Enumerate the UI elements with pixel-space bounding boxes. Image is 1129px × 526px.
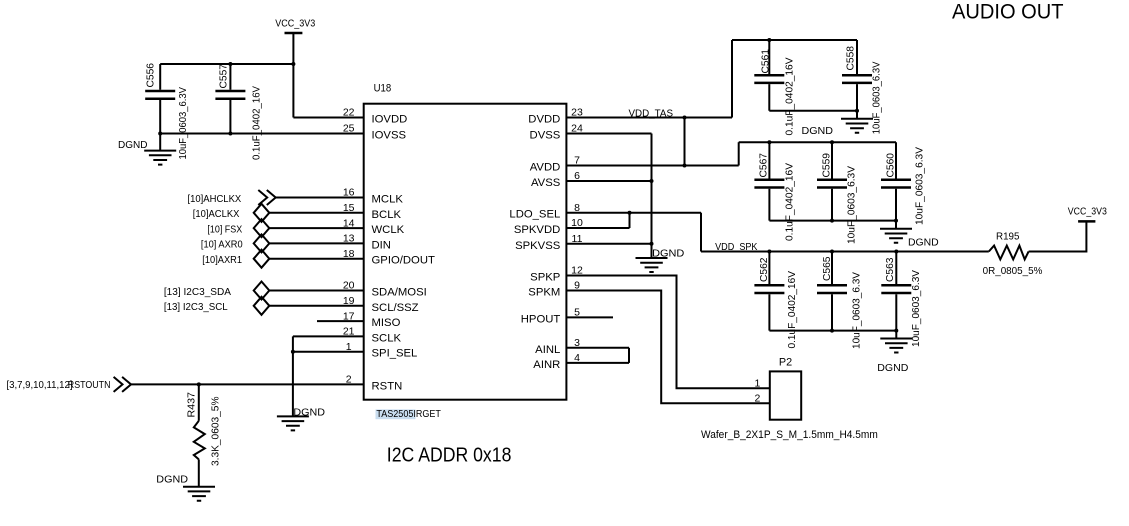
- svg-text:[10] AXR0: [10] AXR0: [201, 239, 243, 251]
- svg-text:C557: C557: [218, 64, 230, 89]
- svg-text:10uF_0603_6.3V: 10uF_0603_6.3V: [910, 270, 922, 347]
- pin 18 GPIO/DOUT: [343, 248, 435, 267]
- capacitor C556: [145, 64, 175, 134]
- port [13] I2C3_SCL: [164, 297, 269, 315]
- wire [13]I2C3_SDA to pin: [269, 290, 363, 292]
- svg-text:AINL: AINL: [535, 344, 560, 356]
- capacitor C561: [754, 40, 784, 111]
- wire VDD_TAS to AVDD: [684, 118, 686, 166]
- pin 20 SDA/MOSI: [343, 280, 427, 299]
- svg-text:R195: R195: [996, 231, 1020, 243]
- junction VDD_TAS / AVDD drop: [683, 116, 687, 120]
- wire AINL to AINR tie: [628, 348, 630, 363]
- wire MISO stub: [317, 320, 364, 322]
- wire LDO_SEL down to VDD_SPK: [700, 213, 702, 252]
- pin 1 SPI_SEL: [346, 341, 418, 360]
- op-amp / IC U18 TAS2505 body: [364, 104, 567, 400]
- svg-text:VDD_TAS: VDD_TAS: [629, 107, 674, 119]
- svg-text:AUDIO OUT: AUDIO OUT: [952, 1, 1064, 24]
- ground DGND (below C556): [144, 151, 176, 165]
- svg-text:[13] I2C3_SDA: [13] I2C3_SDA: [164, 286, 231, 298]
- ground DGND (below SPKVSS): [636, 258, 668, 272]
- junction LDO_SEL: [628, 211, 632, 215]
- pin 6 AVSS: [531, 170, 580, 189]
- wire RSTOUTN to pin 2 RSTN: [131, 383, 364, 385]
- svg-text:C556: C556: [145, 63, 157, 88]
- svg-text:DGND: DGND: [293, 406, 325, 418]
- junction C556 bottom rail: [158, 132, 162, 136]
- wire VDD_TAS up to cap rail: [731, 40, 733, 118]
- capacitor C558: [842, 40, 872, 111]
- wire bottom rail C556/C557 to pin 25 IOVSS: [160, 133, 364, 135]
- svg-text:[10]AHCLKX: [10]AHCLKX: [188, 193, 242, 205]
- svg-text:0.1uF_0402_16V: 0.1uF_0402_16V: [250, 86, 262, 160]
- svg-text:BCLK: BCLK: [372, 209, 402, 221]
- svg-text:DGND: DGND: [118, 139, 148, 151]
- pin 19 SCL/SSZ: [343, 295, 419, 314]
- svg-text:2: 2: [754, 393, 760, 405]
- pin 3 AINL: [535, 337, 580, 356]
- pin 11 SPKVSS: [515, 233, 583, 252]
- svg-text:C560: C560: [885, 153, 897, 178]
- U18 part number TAS2505IRGET (highlighted): [376, 408, 442, 420]
- junction C563 bottom: [894, 329, 898, 333]
- svg-text:3.3K_0603_5%: 3.3K_0603_5%: [210, 397, 222, 467]
- svg-text:[10] FSX: [10] FSX: [207, 223, 242, 235]
- pin 15 BCLK: [343, 202, 402, 221]
- svg-text:MCLK: MCLK: [372, 194, 404, 206]
- svg-text:20: 20: [343, 280, 355, 292]
- capacitor C563: [881, 252, 911, 331]
- junction R437 tap: [197, 382, 201, 386]
- svg-text:SDA/MOSI: SDA/MOSI: [372, 287, 427, 299]
- pin 22 IOVDD: [343, 107, 407, 126]
- svg-text:0.1uF_0402_16V: 0.1uF_0402_16V: [783, 58, 795, 136]
- svg-text:R437: R437: [186, 392, 198, 418]
- svg-text:17: 17: [343, 310, 355, 322]
- pin 4 AINR: [533, 352, 580, 371]
- svg-text:15: 15: [343, 202, 355, 214]
- junction C565 bottom: [830, 329, 834, 333]
- wire C556 to ground: [159, 134, 161, 151]
- junction C563 top: [894, 250, 898, 254]
- svg-text:16: 16: [343, 187, 355, 199]
- junction AVSS: [650, 179, 654, 183]
- pin 5 HPOUT: [521, 307, 580, 326]
- svg-text:IOVDD: IOVDD: [372, 114, 408, 126]
- wire pin 10 SPKVDD: [566, 227, 629, 229]
- wire DVSS down to ground: [651, 134, 653, 259]
- wire C558 to ground: [856, 111, 858, 119]
- svg-text:2: 2: [346, 374, 352, 386]
- svg-text:0.1uF_0402_16V: 0.1uF_0402_16V: [784, 163, 796, 241]
- wire [13]I2C3_SCL to pin: [269, 305, 363, 307]
- ground DGND (below C563): [880, 339, 912, 353]
- svg-text:1: 1: [346, 341, 352, 353]
- junction C557 bottom rail: [228, 132, 232, 136]
- svg-text:P2: P2: [779, 357, 792, 369]
- svg-text:LDO_SEL: LDO_SEL: [509, 209, 560, 221]
- svg-text:C558: C558: [844, 46, 856, 71]
- capacitor C565: [817, 252, 847, 331]
- power flag VCC_3V3 (right): [1068, 205, 1107, 221]
- svg-text:1: 1: [754, 378, 760, 390]
- svg-text:C562: C562: [758, 257, 770, 282]
- svg-text:Wafer_B_2X1P_S_M_1.5mm_H4.5mm: Wafer_B_2X1P_S_M_1.5mm_H4.5mm: [701, 429, 878, 441]
- resistor R437: [194, 384, 205, 486]
- junction C567 top: [767, 140, 771, 144]
- pin 23 DVDD: [528, 107, 583, 126]
- svg-text:IOVSS: IOVSS: [372, 130, 407, 142]
- svg-text:SCL/SSZ: SCL/SSZ: [372, 302, 419, 314]
- svg-text:DGND: DGND: [156, 474, 188, 486]
- junction C560 bottom: [894, 219, 898, 223]
- wire pin 9 SPKM to P2 pin 2: [566, 291, 769, 404]
- pin 16 MCLK: [343, 187, 403, 206]
- svg-text:C563: C563: [884, 257, 896, 282]
- wire bottom rail C561/C558: [769, 110, 857, 112]
- wire [10]FSX to pin: [269, 227, 363, 229]
- svg-text:SPI_SEL: SPI_SEL: [372, 348, 418, 360]
- wire pin 6 AVSS: [566, 180, 651, 182]
- svg-text:22: 22: [343, 107, 355, 119]
- svg-text:[13] I2C3_SCL: [13] I2C3_SCL: [164, 301, 228, 313]
- junction SPKVSS: [650, 242, 654, 246]
- svg-text:AINR: AINR: [533, 359, 560, 371]
- svg-text:C567: C567: [758, 153, 770, 178]
- svg-text:0R_0805_5%: 0R_0805_5%: [983, 265, 1043, 277]
- capacitor C560: [881, 142, 911, 220]
- resistor R195: [989, 246, 1029, 260]
- svg-text:I2C ADDR 0x18: I2C ADDR 0x18: [387, 445, 512, 467]
- ground DGND (below R437): [183, 487, 215, 501]
- ground DGND (below C560): [880, 229, 912, 243]
- wire pin 3 AINL: [566, 347, 629, 349]
- port [10]AHCLKX: [188, 190, 276, 205]
- wire R195 to VCC_3V3: [1029, 221, 1087, 251]
- svg-text:VDD_SPK: VDD_SPK: [715, 241, 757, 253]
- svg-text:SPKP: SPKP: [530, 272, 560, 284]
- svg-text:DVDD: DVDD: [528, 114, 560, 126]
- svg-text:25: 25: [343, 123, 355, 135]
- svg-text:[3,7,9,10,11,12]: [3,7,9,10,11,12]: [7, 379, 73, 391]
- svg-text:RSTOUTN: RSTOUTN: [68, 379, 111, 391]
- wire pin 7 AVDD: [566, 165, 738, 167]
- svg-text:VCC_3V3: VCC_3V3: [275, 18, 315, 30]
- pin 12 SPKP: [530, 265, 583, 284]
- svg-text:10uF_0603_6.3V: 10uF_0603_6.3V: [913, 147, 925, 225]
- svg-text:C561: C561: [760, 49, 772, 74]
- wire pin 4 AINR: [566, 362, 629, 364]
- wire [10]AHCLKX to pin: [276, 197, 364, 199]
- junction C561 top: [767, 38, 771, 42]
- port [10] AXR0: [201, 234, 269, 252]
- junction C565 top: [830, 250, 834, 254]
- pin 2 RSTN: [346, 374, 402, 393]
- pin 7 AVDD: [530, 155, 580, 174]
- svg-text:14: 14: [343, 217, 355, 229]
- wire [10]AXR0 to pin: [269, 242, 363, 244]
- pin 10 SPKVDD: [514, 217, 583, 236]
- svg-text:10uF_0603_6.3V: 10uF_0603_6.3V: [846, 166, 858, 244]
- wire SCLK/SPI_SEL down to ground: [292, 336, 294, 416]
- wire top rail C567/C559/C560: [739, 141, 896, 143]
- svg-text:C559: C559: [821, 153, 833, 178]
- svg-text:U18: U18: [374, 83, 392, 95]
- wire HPOUT stub: [566, 316, 613, 318]
- svg-text:DVSS: DVSS: [530, 130, 561, 142]
- wire C560 to ground: [895, 221, 897, 229]
- svg-text:RSTN: RSTN: [372, 380, 403, 392]
- pin 17 MISO: [343, 310, 401, 329]
- svg-text:19: 19: [343, 295, 355, 307]
- svg-text:SPKVSS: SPKVSS: [515, 240, 561, 252]
- junction C559 bottom: [830, 219, 834, 223]
- pin 8 LDO_SEL: [509, 202, 580, 221]
- junction C559 top: [830, 140, 834, 144]
- wire C563 to ground: [895, 331, 897, 339]
- svg-text:DGND: DGND: [908, 237, 939, 249]
- svg-text:GPIO/DOUT: GPIO/DOUT: [372, 255, 435, 267]
- power flag VCC_3V3 (top left): [275, 18, 315, 33]
- port [3,7,9,10,11,12]RSTOUTN: [7, 377, 132, 392]
- pin 24 DVSS: [530, 123, 583, 142]
- svg-text:SCLK: SCLK: [372, 332, 402, 344]
- svg-text:10uF_0603_6.3V: 10uF_0603_6.3V: [871, 62, 883, 135]
- wire bottom rail C567/C559/C560: [769, 220, 896, 222]
- wire top rail C556/C557 to VCC_3V3: [160, 63, 293, 65]
- wire pin 21 SCLK: [293, 335, 364, 337]
- pin 13 DIN: [343, 233, 391, 252]
- wire pin 22 IOVDD: [293, 117, 363, 119]
- svg-text:SPKVDD: SPKVDD: [514, 224, 560, 236]
- svg-text:HPOUT: HPOUT: [521, 313, 561, 325]
- capacitor C567: [754, 142, 784, 220]
- ground DGND (below C558): [841, 119, 873, 133]
- svg-text:[10]ACLKX: [10]ACLKX: [193, 208, 240, 220]
- wire VCC_3V3 stem: [292, 33, 294, 118]
- junction SPI_SEL tap: [291, 350, 295, 354]
- svg-text:13: 13: [343, 233, 355, 245]
- capacitor C562: [754, 252, 784, 331]
- wire pin 23 DVDD / net VDD_TAS: [566, 117, 732, 119]
- capacitor C559: [817, 142, 847, 220]
- svg-text:[10]AXR1: [10]AXR1: [202, 254, 242, 266]
- wire [10]AXR1 to pin: [269, 258, 363, 260]
- connector P2: [770, 371, 801, 419]
- wire pin 1 SPI_SEL: [293, 351, 364, 353]
- port [10]ACLKX: [193, 204, 270, 222]
- pin 21 SCLK: [343, 326, 402, 345]
- pin 9 SPKM: [528, 280, 580, 299]
- svg-text:DGND: DGND: [802, 125, 834, 137]
- svg-text:DGND: DGND: [652, 247, 685, 259]
- svg-text:DGND: DGND: [877, 362, 909, 374]
- wire [10]ACLKX to pin: [269, 212, 363, 214]
- svg-text:WCLK: WCLK: [372, 224, 405, 236]
- svg-text:21: 21: [343, 326, 355, 338]
- wire VDD_SPK rail: [701, 251, 989, 253]
- junction C557 top rail: [228, 62, 232, 66]
- svg-text:MISO: MISO: [372, 317, 401, 329]
- svg-text:C565: C565: [821, 256, 833, 281]
- svg-text:SPKM: SPKM: [528, 287, 560, 299]
- pin 25 IOVSS: [343, 123, 407, 142]
- svg-text:AVDD: AVDD: [530, 162, 561, 174]
- svg-text:VCC_3V3: VCC_3V3: [1068, 205, 1107, 217]
- svg-text:0.1uF_0402_16V: 0.1uF_0402_16V: [786, 271, 798, 349]
- junction AVDD tap: [683, 164, 687, 168]
- wire pin 12 SPKP to P2 pin 1: [566, 276, 769, 389]
- port [10] FSX: [207, 219, 269, 237]
- svg-text:10uF_0603_6.3V: 10uF_0603_6.3V: [851, 272, 863, 349]
- port [13] I2C3_SDA: [164, 282, 269, 300]
- junction C558 bottom: [855, 109, 859, 113]
- wire AVDD up to cap rail: [738, 142, 740, 165]
- junction VCC stem / top rail: [291, 62, 295, 66]
- svg-text:10uF_0603_6.3V: 10uF_0603_6.3V: [177, 87, 189, 160]
- wire bottom rail C562/C565/C563: [769, 330, 896, 332]
- svg-text:TAS2505IRGET: TAS2505IRGET: [376, 408, 441, 420]
- wire top rail C561/C558: [732, 39, 857, 41]
- wire pin 8 LDO_SEL: [566, 212, 701, 214]
- port [10]AXR1: [202, 250, 269, 268]
- svg-text:18: 18: [343, 248, 355, 260]
- wire pin 11 SPKVSS: [566, 243, 651, 245]
- svg-text:AVSS: AVSS: [531, 177, 561, 189]
- ground DGND (below SPI_SEL): [277, 416, 309, 430]
- junction C562 top: [767, 250, 771, 254]
- capacitor C557: [215, 64, 245, 134]
- svg-text:DIN: DIN: [372, 239, 391, 251]
- pin 14 WCLK: [343, 217, 405, 236]
- wire SPKVDD up to LDO_SEL: [629, 213, 631, 228]
- wire pin 24 DVSS: [566, 133, 651, 135]
